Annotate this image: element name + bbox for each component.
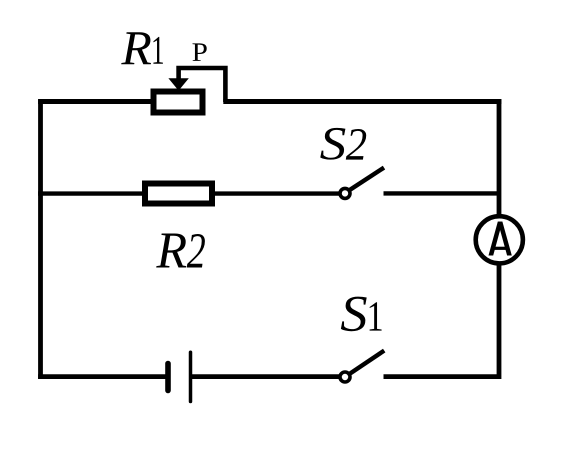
resistor R1 (rheostat body)	[154, 92, 203, 113]
wire top-left horizontal (to R1)	[38, 99, 152, 104]
switch S1 pivot circle	[340, 372, 350, 382]
label S1	[341, 297, 382, 332]
wire bottom horizontal (battery to S1)	[191, 374, 341, 379]
wire bottom horizontal (left of battery)	[38, 374, 166, 379]
ammeter A1 circle	[476, 216, 523, 263]
wire right vertical	[497, 99, 502, 379]
wire wiper of R1	[179, 68, 226, 102]
label P	[192, 43, 206, 61]
resistor R2	[145, 184, 212, 204]
wire middle horizontal (R2 to S2)	[213, 191, 341, 195]
battery positive plate (long thin)	[189, 352, 193, 401]
switch S1 blade	[349, 351, 385, 375]
wire middle horizontal (left rail to R2)	[38, 191, 144, 195]
wire middle horizontal (S2 to right rail)	[384, 191, 502, 195]
wire top-right horizontal (wiper leg to right rail)	[223, 99, 501, 104]
wire left vertical	[38, 99, 43, 379]
switch S2 pivot circle	[340, 188, 350, 198]
wire bottom horizontal (S1 to right rail)	[384, 374, 502, 379]
wiper arrowhead	[168, 78, 188, 90]
switch S2 blade	[349, 168, 384, 191]
label S2	[320, 128, 366, 160]
label R1	[121, 32, 163, 64]
battery negative plate (short thick)	[165, 364, 171, 391]
ammeter A letter	[489, 222, 512, 256]
label R2	[156, 234, 205, 268]
